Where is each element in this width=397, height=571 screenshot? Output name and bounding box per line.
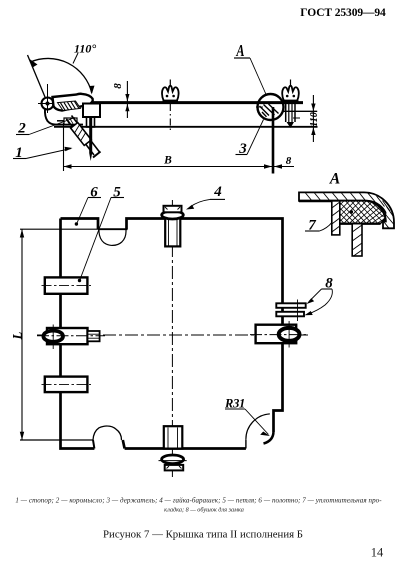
notch step line (top, with dimension extension) bbox=[20, 228, 98, 230]
lever (rocker) of stopper bbox=[53, 94, 93, 111]
wire: lower coaming line bbox=[54, 126, 318, 128]
callout 8 (lugs) bbox=[305, 276, 334, 316]
callout 3 bbox=[236, 120, 264, 158]
dimension 8 (plate thickness) bbox=[112, 81, 130, 118]
svg-text:ГОСТ 25309—94: ГОСТ 25309—94 bbox=[300, 7, 386, 19]
dimension B (bottom of side view) bbox=[64, 123, 295, 171]
vertical centerline of panel bbox=[171, 200, 173, 478]
hinge 5 (lower left) bbox=[42, 377, 92, 393]
wing nut (left, on bar) bbox=[162, 80, 179, 102]
svg-text:110: 110 bbox=[309, 112, 320, 126]
wire: cover plate edge (thick bar) bbox=[58, 101, 303, 104]
arrowhead at left arc end bbox=[29, 59, 38, 68]
svg-text:кладка; 8 — обушок для замка: кладка; 8 — обушок для замка bbox=[164, 507, 244, 514]
svg-text:8: 8 bbox=[112, 83, 124, 89]
callout 7 bbox=[305, 218, 332, 234]
stopper pin (vertical, pointed) bbox=[89, 117, 92, 161]
seal 7 (cross-hatched block) bbox=[340, 201, 386, 224]
bottom extension line bbox=[20, 439, 93, 441]
stopper strut (diagonal) bbox=[67, 116, 101, 158]
lug axis line bbox=[297, 300, 299, 322]
bottom stud with wing nut bbox=[159, 426, 187, 470]
callout 4 bbox=[186, 184, 225, 210]
arrowhead at right arc end bbox=[89, 86, 94, 95]
holder hanger rod (vertical below circle) bbox=[272, 107, 275, 174]
dimension 110 (right vertical) bbox=[309, 95, 320, 142]
callout 2 bbox=[16, 118, 75, 137]
holder circle (right) bbox=[256, 94, 284, 120]
dimension L (left side) bbox=[11, 229, 25, 440]
wing nut (right) with threaded rod bbox=[282, 80, 299, 129]
svg-text:В: В bbox=[163, 155, 172, 167]
svg-text:R31: R31 bbox=[224, 397, 245, 411]
svg-text:14: 14 bbox=[371, 546, 384, 560]
svg-text:6: 6 bbox=[90, 185, 98, 201]
centerline under left wing nut bbox=[169, 104, 171, 133]
horizontal centerline of panel bbox=[37, 334, 308, 336]
right latch assembly bbox=[250, 321, 307, 348]
svg-text:А: А bbox=[329, 171, 340, 188]
callout A (view arrow label) bbox=[234, 42, 267, 95]
leader for 110deg bbox=[73, 53, 78, 64]
callout 5 bbox=[78, 185, 124, 283]
svg-text:8: 8 bbox=[286, 155, 292, 167]
hook bracket below hinge bbox=[45, 108, 83, 125]
cover plate strip with bent edge (section, hatched) bbox=[299, 192, 394, 228]
radius line of swing arc bbox=[28, 55, 46, 97]
callout R31 bbox=[224, 397, 270, 437]
lug 8 (upper bar) bbox=[276, 303, 305, 308]
bump in bottom edge bbox=[93, 426, 122, 440]
svg-text:5: 5 bbox=[113, 185, 121, 201]
svg-text:L: L bbox=[11, 331, 25, 340]
svg-text:Рисунок 7 — Крышка типа II исп: Рисунок 7 — Крышка типа II исполнения Б bbox=[103, 529, 303, 541]
notch in top edge (U-cutout) bbox=[99, 229, 126, 245]
left latch assembly bbox=[37, 325, 105, 350]
callout 6 bbox=[75, 185, 101, 226]
arc 110 degrees swing bbox=[30, 58, 91, 92]
cover panel outline bbox=[61, 219, 283, 449]
corner fillet R31 (thin arc) and step bbox=[246, 414, 270, 449]
small flange line right of circle bbox=[284, 110, 318, 112]
short tick at rod level bbox=[293, 117, 300, 119]
holder bracket under bar (left) bbox=[83, 104, 100, 128]
svg-text:1 — стопор; 2 — коромысло; 3 —: 1 — стопор; 2 — коромысло; 3 — держатель… bbox=[15, 497, 382, 505]
callout 1 bbox=[13, 145, 73, 161]
retaining strip (left hatched bar) bbox=[332, 201, 340, 235]
top stud with wing nut 4 bbox=[162, 206, 184, 247]
hinge 5 (upper left) bbox=[42, 277, 92, 293]
lug 8 (lower bar) bbox=[276, 312, 304, 317]
hinge pivot circle bbox=[38, 84, 57, 113]
svg-text:4: 4 bbox=[213, 184, 222, 200]
coaming wall (bottom hatched bar) bbox=[352, 224, 362, 256]
